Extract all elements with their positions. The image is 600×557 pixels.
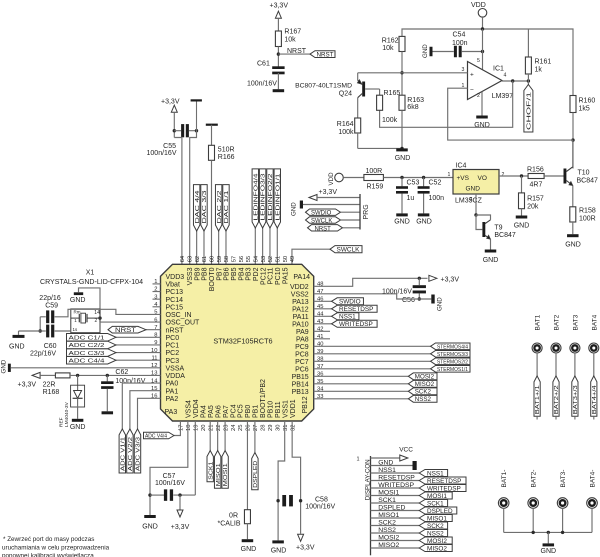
svg-text:31: 31 [283,425,289,431]
svg-text:SCK2: SCK2 [415,389,432,396]
svg-text:51: 51 [275,256,281,262]
svg-text:PC2: PC2 [166,350,180,357]
svg-text:R167: R167 [284,29,301,36]
svg-text:54: 54 [254,255,260,262]
svg-text:ADC V2/2: ADC V2/2 [128,437,134,471]
svg-text:PC13: PC13 [166,289,184,296]
svg-text:C56: C56 [402,297,415,304]
svg-text:62: 62 [195,256,201,262]
capacitor C58 [282,495,286,506]
svg-text:22: 22 [216,425,222,431]
svg-text:63: 63 [188,256,194,262]
svg-text:PC14: PC14 [166,297,184,304]
resistor R168 [55,373,70,378]
svg-text:*CALIB: *CALIB [218,521,241,528]
svg-text:R168: R168 [43,389,60,396]
svg-text:uruchamiania w celu przeprowad: uruchamiania w celu przeprowadzenia [2,545,110,552]
svg-text:C62: C62 [115,369,128,376]
wire pin 27 PB1 [254,421,256,453]
connector PRG [359,194,361,230]
svg-text:DSPLED: DSPLED [253,460,259,487]
svg-text:STERMOS1/1: STERMOS1/1 [437,367,468,373]
svg-text:18: 18 [186,425,192,431]
wire output [502,80,528,82]
svg-text:22R: 22R [43,382,56,389]
svg-text:PA15: PA15 [282,267,289,284]
svg-text:PA13: PA13 [292,299,309,306]
svg-text:GND: GND [70,297,86,304]
svg-text:PB3: PB3 [246,267,253,280]
svg-text:PA5: PA5 [208,405,215,418]
svg-text:BAT4+/4: BAT4+/4 [592,385,598,414]
svg-text:LEDINFO4/4: LEDINFO4/4 [253,173,259,220]
svg-text:GND: GND [70,424,86,431]
wire op-amp V+ pin 5 [482,29,484,70]
svg-text:BAT1+/1: BAT1+/1 [535,385,541,414]
wire Q24 base [365,88,380,90]
wire pin 43 [314,323,332,325]
net flag NRST (pin 7) [108,326,146,333]
svg-text:PA3: PA3 [165,409,178,416]
net flag STERMOS2/2 [431,358,471,365]
wire NSS1 [371,472,420,474]
wire pin 59 [218,231,220,264]
wire [536,353,538,376]
svg-text:VDD3: VDD3 [166,274,185,281]
wire pin 54 [254,228,256,264]
wire pin 21 [209,421,211,451]
svg-text:+3,3V: +3,3V [296,544,315,551]
svg-text:PB8: PB8 [202,267,209,280]
svg-text:GND: GND [514,223,530,230]
svg-text:PC0: PC0 [166,335,180,342]
svg-text:10k: 10k [382,45,394,52]
svg-text:29: 29 [268,425,274,431]
svg-text:VDD2: VDD2 [290,284,309,291]
svg-text:DAC 3/3: DAC 3/3 [202,190,208,223]
svg-text:C53: C53 [407,180,420,187]
net flag NSS1 [419,470,447,477]
wire pin 19 VDD4 [194,421,196,495]
svg-text:SWDIO: SWDIO [339,299,361,306]
wire pin 17 PA3 [174,421,180,436]
svg-text:MISO2: MISO2 [378,542,399,549]
svg-text:+3,3V: +3,3V [270,3,289,10]
net flag BAT4+/4 [591,376,597,416]
wire to T10 base [544,175,563,177]
svg-text:R166: R166 [218,154,235,161]
svg-text:C52: C52 [429,180,442,187]
svg-text:50: 50 [283,256,289,262]
svg-text:19: 19 [194,425,200,431]
wire pin 14 [122,383,160,429]
wire MOSI1 [371,495,420,497]
resistor R162 [399,36,405,51]
svg-text:RESETDSP: RESETDSP [339,306,373,313]
ground [144,515,156,518]
net flag BAT1+/1 [534,376,540,416]
ground [567,234,579,237]
svg-text:GND: GND [394,219,410,226]
wire pin 34 [314,390,409,392]
svg-text:C59: C59 [45,303,58,310]
svg-text:MOSI1: MOSI1 [378,489,399,496]
wire pin 49 PA14 to SWCLK [292,249,330,264]
svg-text:GND: GND [0,359,7,373]
svg-text:61: 61 [202,256,208,262]
svg-text:DAC 1/1: DAC 1/1 [224,190,230,223]
svg-text:PRG: PRG [363,204,370,219]
svg-text:VDD1: VDD1 [290,399,297,418]
wire op-amp V- pin 2 to ground [481,92,483,116]
svg-text:1s: 1s [73,327,79,332]
svg-text:PA7: PA7 [223,405,230,418]
net flag LEDINFO2/2 [267,169,273,228]
svg-text:* Zewrzeć port do masy podczas: * Zewrzeć port do masy podczas [3,536,94,543]
svg-text:GND: GND [291,202,298,216]
svg-text:PA6: PA6 [215,405,222,418]
svg-text:PB14: PB14 [292,381,309,388]
ground [431,295,434,304]
svg-text:Q24: Q24 [339,90,352,97]
node NRST junction [277,52,280,55]
svg-text:21: 21 [208,425,214,431]
vref diode LM4040 [77,375,79,390]
wire [277,18,279,31]
svg-text:NSS1: NSS1 [378,467,396,474]
wire [277,73,279,89]
ground [273,89,285,92]
svg-text:VO: VO [478,175,487,182]
svg-text:PB4: PB4 [238,267,245,280]
svg-text:4: 4 [504,73,507,79]
svg-text:GND: GND [474,122,490,129]
svg-text:100n/16V: 100n/16V [147,150,177,157]
svg-text:PA8: PA8 [296,336,309,343]
svg-text:2: 2 [502,172,505,178]
svg-text:+VS: +VS [457,175,470,182]
svg-text:32: 32 [290,425,296,431]
wire [173,112,175,137]
svg-text:BC847: BC847 [577,178,599,185]
wire [532,508,534,532]
svg-text:R159: R159 [367,184,384,191]
wire IC4 pin 3 [475,194,477,215]
svg-text:SCK1: SCK1 [427,500,444,507]
wire [591,508,593,532]
svg-text:BAT3-: BAT3- [560,470,567,488]
svg-text:BAT4: BAT4 [591,314,598,330]
wire pin 35 [314,383,409,385]
svg-text:22p/16V: 22p/16V [30,350,56,357]
wire MISO1 [371,517,420,519]
svg-text:2: 2 [95,318,98,324]
svg-text:20: 20 [201,425,207,431]
pin stubs 41-42 [314,338,330,340]
svg-text:100R: 100R [366,168,383,175]
pin stubs 1-4 [153,283,161,285]
svg-text:DSPLED: DSPLED [378,504,405,511]
svg-text:VDD4: VDD4 [193,399,200,418]
svg-text:ADC V4/4: ADC V4/4 [145,434,167,440]
net flag SWCLK [306,217,341,223]
svg-text:MOSI1: MOSI1 [223,463,229,486]
wire pin 58 [225,231,227,264]
svg-text:PB10: PB10 [268,401,275,418]
wire OSC_IN [55,309,161,317]
net flag MISO2 [419,545,452,552]
svg-text:20k: 20k [527,204,539,211]
wire to pin 64 VDD3 [174,138,182,265]
net flag DAC 4/4 [193,185,199,231]
wire VSSA [11,367,161,369]
svg-text:PB0: PB0 [245,405,252,418]
svg-text:1: 1 [357,457,360,463]
svg-text:GND: GND [9,344,25,351]
svg-text:1u: 1u [407,195,415,202]
svg-text:STERMOS3/3: STERMOS3/3 [437,352,468,358]
power +3,3V (VDD1) [298,534,304,541]
wire pin 8 [116,336,161,338]
svg-text:DAC 2/2: DAC 2/2 [217,190,223,223]
svg-text:5: 5 [477,58,480,64]
wire RESETDSP [371,480,420,482]
svg-text:27: 27 [253,425,259,431]
wire VDD2 to +3,3V [314,278,428,286]
svg-text:56: 56 [239,256,245,262]
svg-text:X1: X1 [86,269,95,276]
svg-text:NRST: NRST [315,226,332,232]
wire [503,508,505,532]
svg-text:VDDA: VDDA [166,373,186,380]
svg-text:PA9: PA9 [296,329,309,336]
svg-text:IC1: IC1 [493,66,504,73]
svg-text:C61: C61 [257,60,270,67]
svg-text:VSS4: VSS4 [186,400,193,418]
ground (crystal case) [74,292,83,295]
svg-text:BC847: BC847 [494,232,516,239]
capacitor C55 [173,129,176,132]
net flag MOSI1 [222,451,228,489]
ground (C59/C60) [19,330,41,332]
net flag ADC_V1/1 [119,429,125,473]
svg-text:+3,3V: +3,3V [161,99,180,106]
svg-text:100n/16V: 100n/16V [305,504,335,511]
wire pin 31 VSS1 [278,421,285,540]
svg-text:GND: GND [395,155,411,162]
resistor R166 [209,145,215,160]
svg-text:PB11: PB11 [275,401,282,418]
svg-text:100n/16V: 100n/16V [155,480,185,487]
svg-text:LEDINFO3/3: LEDINFO3/3 [261,173,267,220]
svg-text:GND: GND [378,459,393,466]
svg-text:R157: R157 [527,196,544,203]
resistor R160 [570,96,576,113]
wire pin 33 [314,398,409,400]
svg-text:GND: GND [142,523,158,530]
ground [516,216,528,219]
ground bar (VSS3 rail) [196,100,198,130]
wire R165 to output node [380,81,513,127]
svg-text:BAT2-: BAT2- [531,470,538,488]
svg-text:C54: C54 [453,32,466,39]
svg-text:10k: 10k [284,37,296,44]
capacitor C56 [418,278,420,285]
svg-text:ADC V3/3: ADC V3/3 [136,437,142,471]
svg-text:1k: 1k [535,67,543,74]
microcontroller U1 STM32F105RCT6 [161,264,314,421]
svg-text:CHOF/1: CHOF/1 [527,92,533,130]
svg-text:PA4: PA4 [200,405,207,418]
net flag WRITEDSP [419,485,466,492]
wire pin 52 [269,228,271,264]
svg-text:NRST: NRST [115,328,136,334]
svg-text:PA12: PA12 [292,306,309,313]
net flag BAT3+/3 [572,376,578,416]
wire feedback to -input [448,88,573,140]
svg-text:PC11: PC11 [268,267,275,284]
svg-text:28: 28 [261,425,267,431]
svg-text:3: 3 [462,67,465,73]
svg-text:55: 55 [246,256,252,262]
net flag ADC_C3/3 [67,349,117,357]
svg-text:22p/16: 22p/16 [39,295,61,302]
wire pin 61 [203,231,205,264]
net flag MISO2 [408,380,437,387]
net flag NRST [308,225,343,231]
net flag DSPLED [252,453,258,490]
svg-text:R160: R160 [579,98,596,105]
resistor R157 [521,176,523,193]
wire pin 38 [314,360,431,362]
wire pin 51 [276,228,278,264]
resistor R169 0R *CALIB [244,510,250,524]
transistor T10 BC847 [564,169,567,184]
wire pin 40 [314,345,431,347]
svg-text:DISPLAY-CON: DISPLAY-CON [364,459,371,500]
svg-text:PD2: PD2 [253,267,260,281]
net flag STERMOS1/1 [431,366,471,373]
wire pin 44 [314,315,332,317]
net flag NSS2 [419,530,447,537]
svg-text:PA0: PA0 [166,381,179,388]
svg-text:MISO2: MISO2 [427,545,447,552]
svg-text:PC9: PC9 [295,344,309,351]
svg-text:100n: 100n [429,195,445,202]
svg-text:BAT1: BAT1 [535,314,542,330]
svg-text:GND: GND [271,548,287,555]
net flag DSPLED [419,507,457,514]
svg-text:PC7: PC7 [295,359,309,366]
wire nRST [146,329,161,331]
svg-text:GND: GND [466,186,481,193]
svg-text:VCC: VCC [399,446,413,453]
wire pin 45 [314,308,332,310]
svg-text:C55: C55 [163,143,176,150]
svg-text:PA1: PA1 [166,388,179,395]
svg-text:CRYSTALS-GND-LID-CFPX-104: CRYSTALS-GND-LID-CFPX-104 [40,279,143,286]
net flag MOSI2 [408,373,437,380]
svg-text:26: 26 [246,425,252,431]
svg-text:PC12: PC12 [260,267,267,285]
resistor R165 [379,89,381,95]
svg-text:BAT4-: BAT4- [590,470,597,488]
svg-text:LM397: LM397 [492,93,514,100]
svg-text:100k: 100k [338,129,354,136]
svg-text:BAT2+/2: BAT2+/2 [554,385,560,414]
wire SCK2 [371,525,420,527]
svg-text:PC5: PC5 [238,404,245,418]
svg-text:PC3: PC3 [166,358,180,365]
svg-text:PA11: PA11 [293,314,309,321]
svg-text:VSS2: VSS2 [291,291,309,298]
wire pin 39 [314,353,431,355]
wire [277,47,279,68]
net flag SCK1 [419,500,447,507]
wire pin 16 [138,398,161,429]
svg-text:+3,3V: +3,3V [171,524,190,531]
ground (DISPLAY-CON pin) [371,465,413,467]
svg-text:NRST: NRST [317,52,334,58]
svg-text:LEDINFO1/1: LEDINFO1/1 [275,173,281,220]
wire pin 11 [116,359,161,361]
resistor R167 [275,31,281,47]
wire [555,353,557,376]
wire pin 46 [314,300,332,302]
svg-text:R161: R161 [535,59,552,66]
net flag NSS1 [332,313,359,320]
net flag STERMOS4/4 [431,343,471,350]
wire pin 22 [217,421,219,451]
svg-text:nRST: nRST [166,327,185,334]
wire [383,177,453,179]
svg-text:100n/16V: 100n/16V [247,81,277,88]
svg-text:BOOT0: BOOT0 [209,267,216,291]
svg-text:2: 2 [477,93,480,99]
svg-text:LEDINFO2/2: LEDINFO2/2 [268,173,274,220]
net flag ADC_C4/4 [67,356,117,364]
capacitor C54 [433,51,454,53]
svg-text:49: 49 [290,256,296,262]
svg-text:PC6: PC6 [295,366,309,373]
svg-text:BOOT1/PB2: BOOT1/PB2 [260,379,267,418]
svg-text:GND: GND [483,257,499,264]
svg-text:6k8: 6k8 [407,104,418,111]
svg-text:R162: R162 [382,38,399,45]
ground [102,411,114,414]
ground [418,213,430,216]
svg-text:23: 23 [223,425,229,431]
svg-text:PC1: PC1 [166,343,180,350]
wire SCK1 [371,502,420,504]
resistor R164 [355,118,361,133]
wire to pin 63 VSS3 [190,131,197,265]
svg-text:58: 58 [224,256,230,262]
svg-text:T9: T9 [494,224,502,231]
svg-text:NSS2: NSS2 [378,527,396,534]
svg-text:100R: 100R [579,215,596,222]
svg-text:VDD: VDD [328,172,335,186]
svg-text:SWCLK: SWCLK [337,247,360,253]
svg-text:BAT2: BAT2 [554,314,561,330]
wire VDD rail [482,17,484,29]
wire pin 36 [314,375,409,377]
crystal X1 [71,309,100,333]
svg-text:NSS2: NSS2 [415,396,432,403]
net flag BAT2+/2 [553,376,559,416]
svg-text:100n/16V: 100n/16V [115,378,145,385]
svg-text:1: 1 [448,172,451,178]
